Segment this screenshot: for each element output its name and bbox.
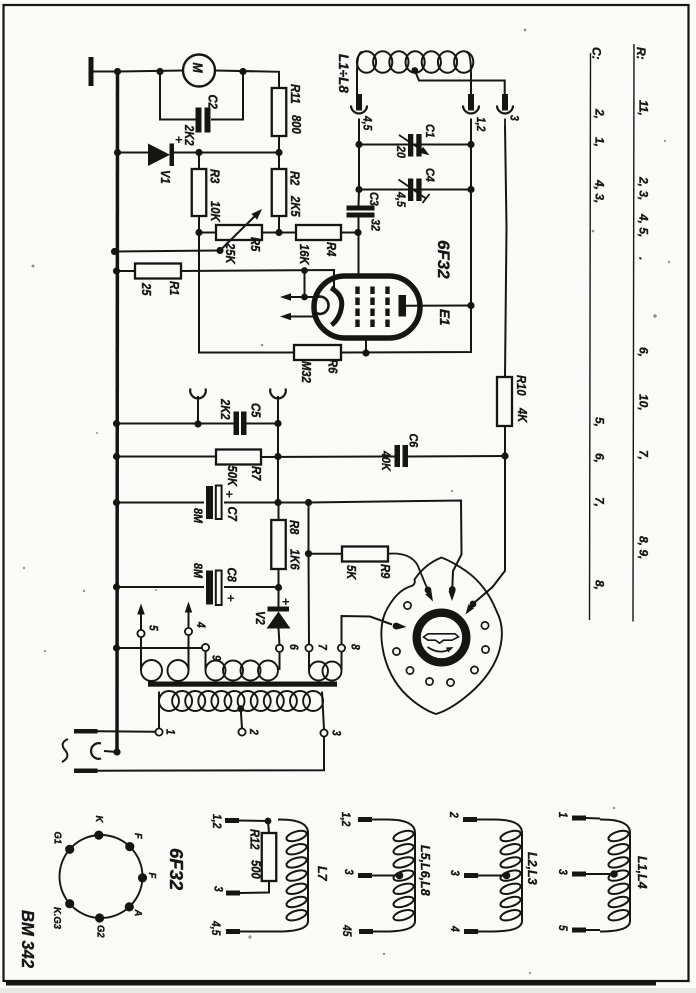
resistor R2: [272, 169, 287, 216]
wire: [470, 190, 472, 306]
resistor R12: [268, 821, 269, 833]
capacitor C6: [395, 445, 401, 467]
svg-text:3: 3: [556, 869, 569, 875]
svg-text:1,2: 1,2: [474, 117, 487, 131]
transformer terminal 1: [158, 692, 160, 729]
svg-text:1,2: 1,2: [339, 812, 352, 826]
switch key slot: [424, 634, 459, 643]
svg-text:C:: C:: [590, 47, 604, 60]
svg-text:2, 3,: 2, 3,: [637, 176, 651, 200]
jack socket: [190, 389, 206, 399]
transformer terminal 7: [305, 644, 312, 651]
svg-text:6F32: 6F32: [166, 848, 187, 891]
node: [274, 420, 281, 427]
svg-text:6F32: 6F32: [434, 240, 453, 279]
vibrator socket outline: [381, 558, 502, 715]
svg-text:2K5: 2K5: [288, 195, 303, 217]
wire: [358, 190, 361, 207]
transformer terminal 5: [137, 630, 144, 637]
resistor R10: [497, 377, 512, 426]
wire: [224, 586, 279, 588]
svg-text:R9: R9: [378, 564, 393, 579]
node: [354, 229, 361, 236]
wire: [475, 426, 506, 603]
svg-text:R5: R5: [248, 237, 263, 252]
transformer terminal 4: [185, 628, 192, 635]
transformer terminal 3: [322, 692, 324, 730]
wire: [341, 306, 471, 353]
node: [305, 499, 312, 506]
net list line R: [633, 44, 634, 622]
input terminal: [89, 57, 94, 86]
net list line C: [590, 53, 591, 620]
svg-text:G2: G2: [94, 925, 106, 938]
wire: [359, 144, 471, 146]
mains prong 2: [74, 769, 98, 774]
resistor R8: [271, 520, 286, 569]
svg-text:50K: 50K: [225, 466, 240, 488]
svg-text:+: +: [282, 594, 290, 609]
svg-text:R10: R10: [514, 375, 529, 396]
svg-text:K.G3: K.G3: [51, 907, 63, 929]
wire: [118, 152, 149, 154]
potentiometer R5: [216, 225, 262, 240]
coil L1-L8: [357, 52, 362, 94]
node: [467, 302, 474, 309]
svg-text:6,: 6,: [637, 347, 651, 357]
svg-text:5K: 5K: [344, 565, 359, 581]
svg-text:8,: 8,: [593, 580, 607, 590]
tube anode: [399, 295, 407, 317]
svg-text:6,: 6,: [593, 453, 607, 463]
svg-text:C1: C1: [423, 124, 436, 138]
svg-text:32: 32: [368, 219, 381, 232]
svg-text:2K2: 2K2: [218, 398, 233, 420]
svg-text:2: 2: [447, 811, 460, 818]
wire: [309, 553, 343, 555]
node: [216, 247, 223, 254]
svg-text:L1÷L8: L1÷L8: [336, 54, 351, 93]
node: [113, 499, 120, 506]
svg-text:3: 3: [507, 115, 520, 121]
node: [113, 583, 120, 590]
tube cathode: [331, 288, 342, 325]
node: [355, 186, 362, 193]
svg-text:8M: 8M: [191, 508, 204, 523]
svg-text:.: .: [637, 257, 651, 260]
svg-text:R3: R3: [207, 169, 222, 184]
wire to switch contact 2: [309, 501, 462, 589]
wire: [341, 232, 358, 234]
svg-text:11,: 11,: [637, 100, 651, 116]
svg-text:R4: R4: [324, 242, 339, 257]
wire: [261, 456, 395, 459]
svg-text:+: +: [226, 487, 234, 502]
jack socket: [270, 389, 286, 399]
wire: [199, 232, 216, 234]
svg-text:G1: G1: [51, 832, 63, 845]
wire: [160, 72, 196, 120]
svg-text:C8: C8: [224, 568, 239, 583]
svg-text:10,: 10,: [637, 394, 651, 411]
svg-text:R7: R7: [249, 466, 264, 482]
svg-text:1,: 1,: [593, 137, 607, 147]
svg-text:F: F: [146, 873, 158, 880]
svg-text:4K: 4K: [515, 407, 530, 424]
node: [467, 186, 474, 193]
node: [275, 229, 282, 236]
svg-text:8M: 8M: [191, 563, 204, 578]
svg-text:L1,L4: L1,L4: [635, 856, 649, 889]
node: [194, 420, 201, 427]
wire: [247, 423, 279, 425]
svg-text:4,5: 4,5: [394, 191, 407, 208]
svg-text:5,: 5,: [593, 417, 607, 427]
resistor R1: [135, 264, 181, 279]
wire: [117, 586, 205, 588]
svg-text:V1: V1: [158, 170, 173, 184]
wire: [94, 71, 119, 73]
wire: [408, 455, 505, 458]
node: [501, 452, 508, 459]
svg-text:2,: 2,: [593, 108, 607, 119]
node: [274, 499, 281, 506]
svg-text:R11: R11: [288, 84, 303, 104]
wire: [118, 71, 183, 72]
transformer secondary s2: [206, 661, 226, 681]
jack plug 3: [502, 94, 508, 111]
svg-text:2: 2: [247, 728, 260, 735]
resistor R3: [192, 169, 207, 216]
wire: [277, 424, 279, 504]
node: [265, 818, 272, 825]
transformer secondary s3: [309, 662, 328, 681]
transformer primary: [159, 691, 179, 711]
svg-text:4,5: 4,5: [360, 115, 373, 131]
coil tap wire: [411, 67, 418, 74]
svg-text:25: 25: [139, 282, 154, 296]
svg-text:C3: C3: [367, 192, 380, 206]
svg-text:1: 1: [163, 729, 176, 735]
resistor R6: [294, 345, 341, 360]
mains prong 1: [74, 729, 98, 734]
wire: [117, 270, 136, 272]
svg-text:1K6: 1K6: [287, 549, 302, 570]
node: [111, 248, 118, 255]
node: [362, 349, 369, 356]
wire: [117, 502, 205, 504]
wire: [224, 502, 309, 504]
svg-text:8: 8: [348, 644, 361, 651]
wire: [358, 119, 360, 145]
transformer secondary s1: [141, 660, 162, 681]
transformer terminal 9: [202, 644, 209, 651]
socket pin A: [125, 902, 134, 911]
tube socket 6F32 bottom view: [60, 835, 143, 918]
transformer core: [148, 682, 337, 687]
svg-text:M: M: [190, 63, 206, 73]
svg-text:3: 3: [342, 869, 355, 875]
jack plug 1,2: [468, 94, 474, 111]
capacitor C3: [347, 206, 375, 211]
tube E1 envelope: [314, 276, 420, 338]
wiper wire: [115, 251, 221, 252]
wire to switch contact 0: [342, 616, 393, 644]
switch contact 4 arrow: [470, 601, 477, 608]
capacitor C5: [234, 412, 240, 436]
svg-text:3: 3: [211, 886, 224, 892]
svg-text:L5,L6,L8: L5,L6,L8: [418, 845, 432, 896]
svg-text:L7: L7: [315, 866, 329, 882]
svg-text:6: 6: [287, 644, 300, 651]
wire: [98, 737, 325, 771]
svg-text:C5: C5: [248, 403, 263, 418]
svg-text:4, 3,: 4, 3,: [593, 179, 607, 203]
svg-text:R6: R6: [325, 359, 340, 374]
node: [467, 141, 474, 148]
svg-text:7,: 7,: [637, 450, 651, 460]
transformer terminal 8: [338, 644, 345, 651]
resistor R7: [216, 450, 261, 465]
socket pin K.G3: [65, 899, 74, 908]
svg-text:C6: C6: [406, 434, 419, 448]
svg-text:3: 3: [329, 730, 342, 736]
node: [113, 453, 120, 460]
svg-text:800: 800: [289, 115, 304, 134]
trimmer capacitor C4: [408, 179, 413, 202]
node: [156, 68, 163, 75]
wire: [98, 730, 156, 732]
cathode wire: [181, 270, 334, 290]
wire: [470, 119, 472, 145]
svg-text:+: +: [227, 591, 235, 606]
svg-text:C7: C7: [225, 507, 240, 523]
node: [113, 644, 120, 651]
svg-text:45: 45: [340, 924, 353, 937]
wire: [174, 152, 279, 154]
svg-text:4: 4: [194, 621, 207, 628]
node: [195, 149, 202, 156]
svg-text:8, 9,: 8, 9,: [637, 536, 651, 559]
svg-text:R8: R8: [287, 520, 302, 535]
wire: [117, 647, 203, 649]
socket holes: [404, 602, 411, 609]
svg-text:10K: 10K: [208, 201, 223, 223]
svg-text:R12: R12: [247, 829, 262, 850]
wire: [278, 216, 280, 233]
socket pin G1: [65, 845, 74, 854]
svg-text:7: 7: [315, 644, 328, 651]
svg-text:R1: R1: [167, 281, 182, 295]
svg-text:L2,L3: L2,L3: [525, 852, 539, 885]
svg-text:R2: R2: [287, 171, 302, 186]
wire: [211, 72, 243, 120]
svg-text:500: 500: [248, 860, 263, 879]
tube heater: [315, 297, 329, 314]
transformer terminal 6: [276, 645, 283, 652]
node: [305, 550, 312, 557]
svg-text:25K: 25K: [223, 242, 238, 265]
node: [301, 267, 308, 274]
svg-text:A: A: [132, 909, 144, 917]
svg-text:40K: 40K: [379, 450, 392, 471]
AC symbol: [62, 739, 68, 762]
diode V2: [278, 588, 280, 608]
wire: [198, 153, 200, 170]
socket pin K: [94, 831, 103, 840]
svg-text:5: 5: [556, 925, 569, 932]
svg-text:5: 5: [146, 625, 159, 632]
tube grids: [355, 287, 359, 295]
heater arrow f1: [304, 271, 306, 298]
wire: [215, 71, 279, 89]
svg-text:BM 342: BM 342: [18, 910, 37, 969]
socket pin G2: [95, 913, 104, 922]
svg-text:C4: C4: [423, 168, 436, 182]
wire: [199, 233, 294, 353]
wire: [278, 503, 280, 521]
svg-text:1: 1: [556, 812, 569, 818]
wire: [358, 145, 360, 190]
node: [114, 149, 121, 156]
svg-text:V2: V2: [253, 611, 268, 625]
capacitor C7: [206, 486, 213, 519]
wire: [262, 232, 296, 234]
node: [113, 267, 120, 274]
node: [355, 141, 362, 148]
resistor R11: [272, 88, 287, 136]
node: [274, 453, 281, 460]
svg-text:2K2: 2K2: [182, 124, 197, 146]
node: [113, 420, 120, 427]
grid wire: [358, 218, 360, 278]
svg-text:+: +: [175, 132, 183, 147]
node: [114, 68, 121, 75]
svg-text:1,2: 1,2: [210, 814, 223, 828]
resistor R4: [296, 225, 341, 240]
anode wire: [406, 305, 471, 307]
ground bus wire: [115, 72, 119, 753]
transformer tap terminal 2: [237, 705, 244, 712]
svg-text:F: F: [132, 833, 144, 840]
resistor R9: [342, 547, 388, 562]
svg-text:C2: C2: [205, 95, 220, 110]
rotation arrow: [428, 647, 452, 652]
grid2 wire: [365, 338, 367, 353]
node: [275, 149, 282, 156]
svg-text:4: 4: [448, 925, 461, 932]
node: [113, 748, 120, 755]
wire: [117, 456, 217, 458]
svg-text:20: 20: [394, 145, 407, 159]
svg-text:4,5: 4,5: [209, 920, 222, 936]
node: [275, 584, 282, 591]
svg-text:R:: R:: [634, 47, 648, 60]
wire: [117, 423, 235, 425]
pickup jack: [91, 743, 101, 759]
svg-text:K: K: [93, 816, 105, 824]
capacitor C8: [206, 571, 213, 605]
socket pin F: [125, 842, 134, 851]
wire: [505, 126, 507, 377]
switch ring: [417, 613, 467, 663]
svg-text:M32: M32: [299, 361, 314, 383]
svg-text:7,: 7,: [593, 497, 607, 507]
diode V1: [148, 144, 170, 167]
wire: [308, 503, 310, 554]
wire: [359, 189, 471, 191]
socket pin F: [138, 873, 147, 882]
jack plug 4,5: [356, 94, 362, 111]
heater arrow f2: [289, 316, 314, 318]
svg-text:3: 3: [448, 870, 461, 876]
node: [239, 68, 246, 75]
wire: [470, 145, 472, 190]
wire to switch contact 1: [388, 554, 427, 588]
svg-text:16K: 16K: [297, 244, 312, 266]
variable capacitor C1: [408, 134, 413, 157]
svg-text:E1: E1: [437, 309, 452, 326]
wire: [278, 136, 280, 169]
svg-text:4, 5,: 4, 5,: [637, 213, 651, 237]
meter M: [183, 55, 215, 87]
capacitor C2: [196, 108, 202, 133]
wire: [198, 216, 200, 233]
node: [195, 229, 202, 236]
